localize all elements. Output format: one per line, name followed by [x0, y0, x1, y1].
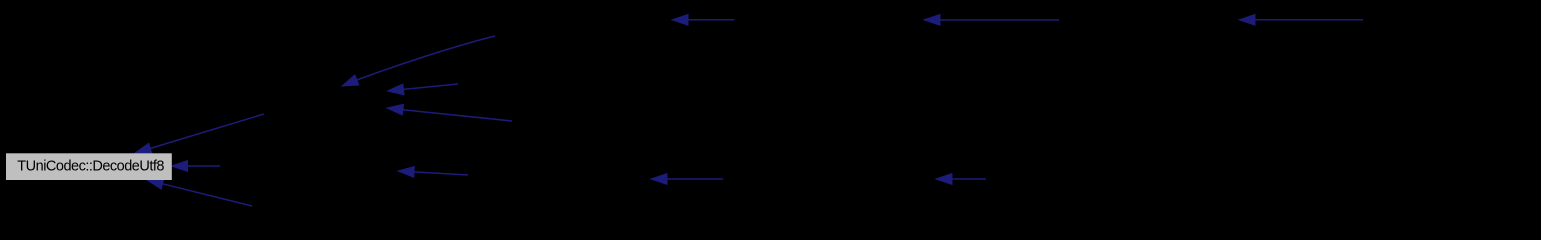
- arrow D2 (bottom row middle): [651, 174, 723, 185]
- arrow D3 (bottom row right): [936, 174, 986, 185]
- arrow B2 (into DecodeUtf8 box right): [172, 161, 221, 172]
- arrow B1 (into DecodeUtf8 box top): [135, 114, 264, 154]
- arrow Bl (lower edge into middle node right side): [387, 104, 512, 121]
- arrow Bu (upper edge into middle node right side): [388, 84, 459, 95]
- arrow A3 (top row right): [1239, 14, 1363, 25]
- svg-text:TUniCodec::DecodeUtf8: TUniCodec::DecodeUtf8: [17, 159, 164, 175]
- arrow B3 (into DecodeUtf8 box bottom): [147, 179, 252, 206]
- node box TUniCodec::DecodeUtf8: [6, 153, 172, 180]
- arrow D1 (bottom row left): [398, 167, 468, 178]
- arrow C1 (curved edge into middle node): [342, 36, 495, 86]
- arrow A1 (top row left): [672, 14, 735, 25]
- arrow A2 (top row middle): [924, 15, 1059, 26]
